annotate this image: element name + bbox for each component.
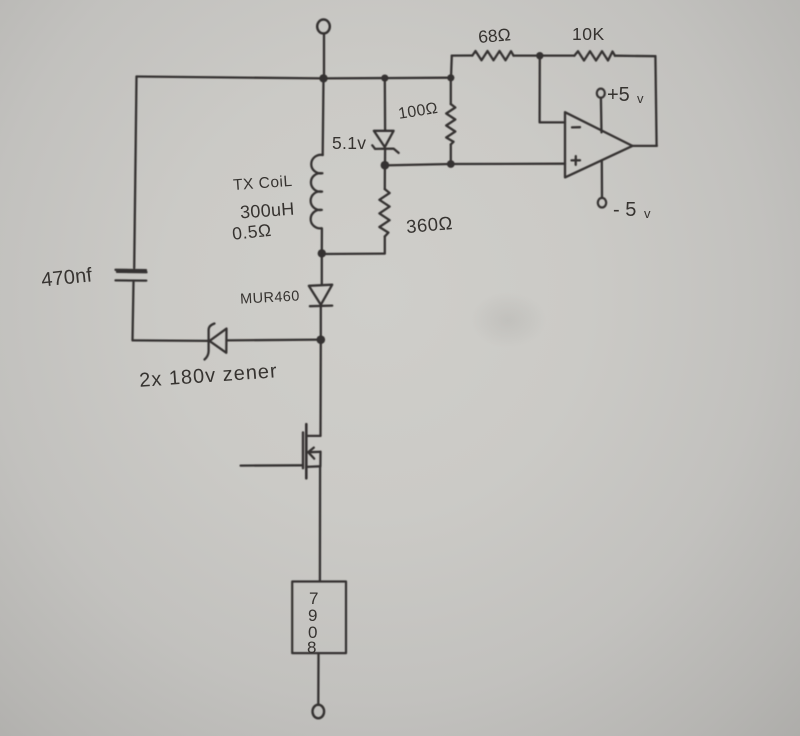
diode D2 MUR460 xyxy=(309,285,332,307)
wire source down xyxy=(319,466,322,581)
wire right vertical feedback xyxy=(655,56,656,146)
wire left vertical xyxy=(134,77,136,269)
resistor R3 100ohm xyxy=(446,104,455,144)
zener diode D3 2x180v xyxy=(205,324,227,360)
svg-text:300uH: 300uH xyxy=(239,199,295,223)
wire 10K lead left xyxy=(540,54,575,56)
wire 5.1 zener to node xyxy=(384,149,386,164)
wire op-amp output xyxy=(632,145,656,147)
svg-text:470nf: 470nf xyxy=(40,264,93,291)
wire 100ohm top lead xyxy=(450,78,452,104)
wire 360 bottom link xyxy=(322,236,385,254)
wire 100ohm bottom lead xyxy=(450,144,452,163)
svg-text:- 5: - 5 xyxy=(613,199,636,221)
node junction coil/360 xyxy=(318,249,326,257)
svg-text:10K: 10K xyxy=(572,24,605,44)
terminal +5v xyxy=(597,89,605,98)
wire cap to corner xyxy=(133,282,134,340)
transistor Q1 MOSFET xyxy=(303,424,321,478)
op-amp U1 xyxy=(565,112,632,177)
node junction 100ohm top xyxy=(447,74,454,81)
wire 68 to 10K node xyxy=(514,54,540,56)
wire 360 top lead xyxy=(384,165,386,189)
capacitor C1 470nf xyxy=(116,270,147,281)
svg-text:0.5Ω: 0.5Ω xyxy=(231,220,272,244)
wire coil bottom xyxy=(321,228,323,252)
wire 68 row lead left xyxy=(452,54,473,56)
resistor R4 360ohm xyxy=(379,189,389,236)
terminal -5v xyxy=(598,198,606,208)
terminal bottom xyxy=(313,705,325,719)
wire box to terminal xyxy=(317,653,320,705)
wire zener branch stem xyxy=(384,78,387,130)
svg-text:v: v xyxy=(637,91,644,106)
zener diode D1 5.1v xyxy=(372,131,398,153)
svg-text:360Ω: 360Ω xyxy=(405,212,453,237)
wire zener row left xyxy=(133,339,209,342)
svg-text:2x 180v zener: 2x 180v zener xyxy=(139,360,279,392)
svg-text:100Ω: 100Ω xyxy=(397,100,439,123)
svg-text:5.1v: 5.1v xyxy=(332,133,366,153)
svg-text:TX CoiL: TX CoiL xyxy=(233,173,294,194)
wire MUR460 to node xyxy=(320,306,322,340)
node junction zener branch xyxy=(381,75,388,82)
wire center vertical upper xyxy=(322,78,325,155)
wire 10K lead right xyxy=(615,55,656,58)
resistor R1 68ohm xyxy=(472,51,513,60)
resistor R2 10K xyxy=(574,51,615,60)
terminal top xyxy=(317,20,330,34)
svg-text:68Ω: 68Ω xyxy=(477,24,511,47)
wire top horizontal bus xyxy=(137,77,451,79)
node junction 5.1v xyxy=(381,161,390,170)
svg-text:+5: +5 xyxy=(607,84,630,106)
inductor L1 TX coil xyxy=(311,155,323,229)
wire node to drain xyxy=(319,340,322,436)
regulator U2 7908 box xyxy=(292,582,346,654)
wire top stem xyxy=(323,34,325,76)
paper smudge xyxy=(470,292,546,348)
node junction fb xyxy=(536,52,543,59)
wire dot to MUR460 xyxy=(321,254,323,285)
wire +5 stem xyxy=(600,98,603,133)
wire zener row right xyxy=(227,338,321,341)
wire up to 68ohm row xyxy=(450,56,453,78)
wire gate xyxy=(241,464,303,467)
node junction zener/drain xyxy=(317,335,326,344)
wire inverting input xyxy=(540,56,565,123)
wire mid horizontal to op-amp xyxy=(385,164,565,166)
wire -5 stem xyxy=(601,160,604,198)
svg-text:v: v xyxy=(644,206,651,221)
svg-text:MUR460: MUR460 xyxy=(240,289,300,308)
svg-text:8: 8 xyxy=(307,638,316,657)
node junction top-center xyxy=(319,74,327,82)
node junction 100ohm bottom xyxy=(447,160,455,168)
